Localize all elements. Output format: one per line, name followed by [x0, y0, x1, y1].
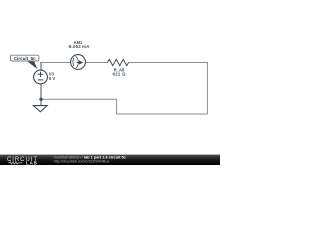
svg-text:Circuit_5c: Circuit_5c — [14, 56, 36, 61]
annotation flag Circuit_5c — [10, 55, 39, 69]
footer text line 1 — [54, 155, 127, 160]
label V3 value 5 V — [49, 76, 55, 81]
label AM1 name — [74, 40, 83, 45]
wire: bottom-left horizontal to V3 — [41, 98, 117, 100]
svg-text:5 V: 5 V — [49, 76, 55, 81]
label V3 name — [49, 72, 55, 77]
wire: bottom horizontal — [117, 113, 208, 115]
wire: right vertical — [206, 62, 208, 114]
ammeter AM1 — [71, 55, 86, 70]
wire: step vertical — [116, 99, 118, 114]
ground — [34, 99, 48, 112]
label R_All value 621 ohm — [113, 72, 127, 77]
footer bar — [0, 155, 220, 165]
footer logo CIRCUIT LAB — [7, 157, 38, 165]
wire: ammeter to resistor — [85, 62, 107, 64]
voltage source V3 — [34, 70, 48, 84]
label R_All name — [114, 68, 124, 73]
svg-text:621 Ω: 621 Ω — [113, 72, 127, 77]
svg-text:LAB: LAB — [26, 160, 38, 165]
wire: V3 top lead — [40, 62, 42, 70]
resistor R_All — [108, 59, 129, 65]
wire: V3 bottom lead — [40, 84, 42, 100]
label AM1 value -8.052 mA — [67, 44, 90, 49]
svg-text:-8.052 mA: -8.052 mA — [67, 44, 90, 49]
wire top net: V3 to ammeter — [41, 62, 71, 64]
junction node at V3 bottom — [39, 98, 42, 101]
wire: resistor to top-right corner — [129, 62, 208, 64]
svg-text:http://circuitlab.com/c/332N9h: http://circuitlab.com/c/332N9h4Bua — [54, 159, 110, 163]
footer text line 2 — [54, 159, 110, 163]
